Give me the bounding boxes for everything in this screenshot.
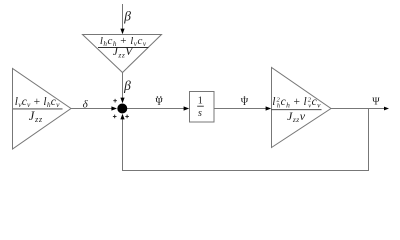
svg-text:δ: δ bbox=[83, 99, 89, 111]
svg-text:Ψ: Ψ bbox=[155, 97, 163, 108]
svg-text:lhch + lvcv: lhch + lvcv bbox=[100, 35, 147, 48]
svg-text:JzzV: JzzV bbox=[113, 46, 134, 59]
svg-text:Ψ: Ψ bbox=[372, 97, 380, 108]
svg-text:Jzzv: Jzzv bbox=[287, 109, 306, 124]
svg-text:Jzz: Jzz bbox=[29, 109, 43, 124]
svg-text:β: β bbox=[123, 9, 131, 24]
svg-text:1: 1 bbox=[198, 95, 203, 106]
svg-text:s: s bbox=[198, 108, 202, 119]
svg-text:l2hch + l2vcv: l2hch + l2vcv bbox=[272, 96, 321, 109]
svg-text:β: β bbox=[123, 78, 131, 93]
svg-text:Ψ: Ψ bbox=[241, 97, 249, 108]
svg-text:lvcv + lhcv: lvcv + lhcv bbox=[15, 96, 60, 109]
